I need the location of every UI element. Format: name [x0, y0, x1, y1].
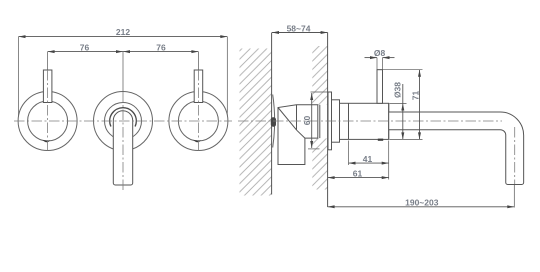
right handle escutcheon circle: [169, 92, 228, 151]
svg-text:76: 76: [80, 43, 90, 53]
dim 212 left arrow: [19, 35, 26, 38]
dim 60 top extension: [311, 91, 331, 93]
left handle lever: [43, 70, 52, 103]
left handle escutcheon circle: [18, 92, 77, 151]
dim Ø8 extension lines: [376, 58, 378, 70]
right handle vertical centerline: [197, 70, 199, 153]
left handle indicator wedge: [43, 140, 51, 143]
sleeve end edge line: [388, 103, 390, 139]
wall back layer hatch upper: [312, 46, 327, 105]
dim Ø8 line segments: [365, 57, 378, 59]
spout escutcheon circle: [94, 92, 153, 151]
left handle inner circle: [28, 101, 68, 141]
handle stem (Ø8): [377, 70, 383, 104]
dim 212 right extension line: [226, 37, 228, 117]
dim 212 right arrow: [220, 35, 227, 38]
svg-text:58~74: 58~74: [287, 23, 311, 33]
svg-text:Ø8: Ø8: [374, 48, 386, 58]
dim 41 line: [349, 162, 389, 164]
dim 61 line: [328, 177, 389, 179]
svg-text:212: 212: [116, 27, 130, 37]
dim Ø38 extension: [390, 103, 407, 105]
dim 60 bottom extension: [308, 148, 320, 150]
spout flange circle: [105, 103, 142, 140]
right handle inner circle: [178, 101, 218, 141]
right handle lever: [194, 70, 203, 103]
spout bend silhouette arc: [110, 108, 137, 127]
right handle indicator wedge: [193, 140, 201, 143]
escutcheon profile curve: [273, 95, 275, 148]
trim ring 2: [332, 100, 340, 142]
inlet fitting (dark): [271, 117, 276, 126]
spout (side): [389, 112, 524, 185]
wall front layer hatch: [240, 49, 272, 196]
valve chamfer diagonal: [297, 130, 305, 138]
svg-text:71: 71: [411, 91, 421, 101]
spout sleeve (Ø38 body): [340, 103, 389, 139]
dim 76 extension lines: [47, 52, 49, 70]
dim 60 line: [311, 93, 313, 148]
dim 212 left extension line: [18, 37, 20, 117]
left handle vertical centerline: [47, 70, 49, 153]
concealed valve body: [278, 105, 318, 165]
spout tube (front): [113, 111, 132, 185]
side view horizontal centerline: [238, 120, 502, 122]
svg-text:61: 61: [353, 168, 363, 178]
dim 76 left line: [48, 51, 123, 53]
valve cartridge left edge: [296, 105, 298, 130]
svg-text:76: 76: [156, 43, 166, 53]
svg-text:190~203: 190~203: [405, 198, 439, 208]
dim 71 top extension: [377, 69, 423, 71]
dim 212 line: [19, 36, 228, 38]
front view horizontal centerline: [14, 120, 232, 122]
dim Ø38 line: [402, 84, 404, 139]
dim 76 right line: [123, 51, 198, 53]
dim 76 arrows: [48, 50, 55, 53]
dim 190~203 line: [328, 206, 515, 208]
trim ring 1: [328, 92, 332, 150]
wall back layer hatch lower: [312, 138, 327, 189]
spout drop centerline: [514, 127, 516, 184]
valve funnel diagonal: [278, 108, 297, 131]
svg-text:Ø38: Ø38: [393, 82, 403, 98]
grub screw: [378, 139, 383, 141]
wall back face line: [327, 33, 329, 208]
svg-text:41: 41: [363, 154, 373, 164]
dim 190~203 right extension: [513, 185, 515, 208]
spout vertical centerline: [122, 92, 124, 191]
dim 41 extension lines: [348, 141, 350, 166]
wall front face line: [271, 33, 273, 195]
sleeve division line: [348, 103, 350, 139]
dim 71 line: [419, 70, 421, 140]
dim 58~74 line: [272, 32, 328, 34]
valve back plate line: [319, 105, 321, 138]
svg-text:60: 60: [302, 116, 312, 126]
dim 71 bottom extension: [390, 138, 423, 140]
